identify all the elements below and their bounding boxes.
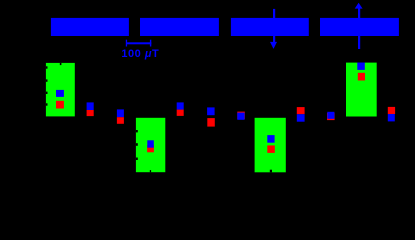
svg-text:100 μT: 100 μT: [121, 48, 159, 60]
marker red in box3: [267, 145, 275, 153]
pair E marker blue (front): [237, 113, 244, 120]
marker red in box2 (behind): [147, 145, 154, 152]
axis tick over box3 bottom edge: [270, 170, 272, 173]
pair E marker red (behind): [237, 112, 245, 120]
pair A marker blue: [87, 102, 94, 110]
pair B marker red: [117, 117, 124, 124]
axis tick over box2 left (b): [136, 143, 138, 146]
pair D marker blue: [207, 107, 215, 115]
pair C marker red: [177, 110, 184, 116]
pair G marker blue (front): [327, 112, 334, 119]
field bar 4 (panel 4 top): [320, 18, 399, 36]
axis tick over box1 left (d): [46, 103, 48, 105]
pair H marker blue (bottom): [388, 114, 395, 121]
axis tick over box1 left (a): [46, 66, 48, 68]
scale bar line: [126, 42, 151, 44]
marker blue in box2 (front): [147, 140, 154, 147]
field bar 2 (panel 2 top): [140, 18, 219, 36]
green highlight box 3: [255, 118, 286, 173]
marker blue in box3: [267, 135, 274, 143]
scale bar right cap: [150, 40, 151, 47]
axis tick over box2 left (c): [136, 158, 138, 161]
pair A marker red: [87, 110, 94, 116]
marker red in box4: [358, 73, 365, 81]
marker red in box1: [56, 101, 64, 109]
scale bar left cap: [126, 40, 127, 47]
pair F marker blue (bottom): [297, 114, 305, 122]
axis tick over box1 left (b): [46, 79, 48, 81]
pair B marker blue: [117, 109, 124, 117]
field bar 3 (panel 3 top): [231, 18, 309, 36]
green highlight box 2: [136, 118, 165, 172]
green highlight box 1: [46, 63, 75, 117]
axis tick over box1 left (c): [46, 92, 48, 94]
axis tick over box2 left (a): [136, 130, 138, 132]
marker blue in box1: [56, 90, 64, 97]
marker blue in box4: [357, 63, 365, 70]
pair C marker blue: [177, 102, 184, 109]
axis tick over box1 top edge: [60, 63, 62, 65]
pair F marker red (top): [297, 107, 305, 114]
field bar 1 (panel 1 top): [51, 18, 129, 36]
pair G marker red (behind): [327, 113, 335, 120]
down arrow through bar 3: [270, 9, 277, 49]
green highlight box 4: [346, 63, 377, 117]
axis tick over box2 bottom edge: [150, 170, 151, 172]
pair D marker red: [207, 118, 215, 127]
pair H marker red (top): [388, 107, 395, 114]
up arrow through bar 4: [355, 3, 363, 49]
